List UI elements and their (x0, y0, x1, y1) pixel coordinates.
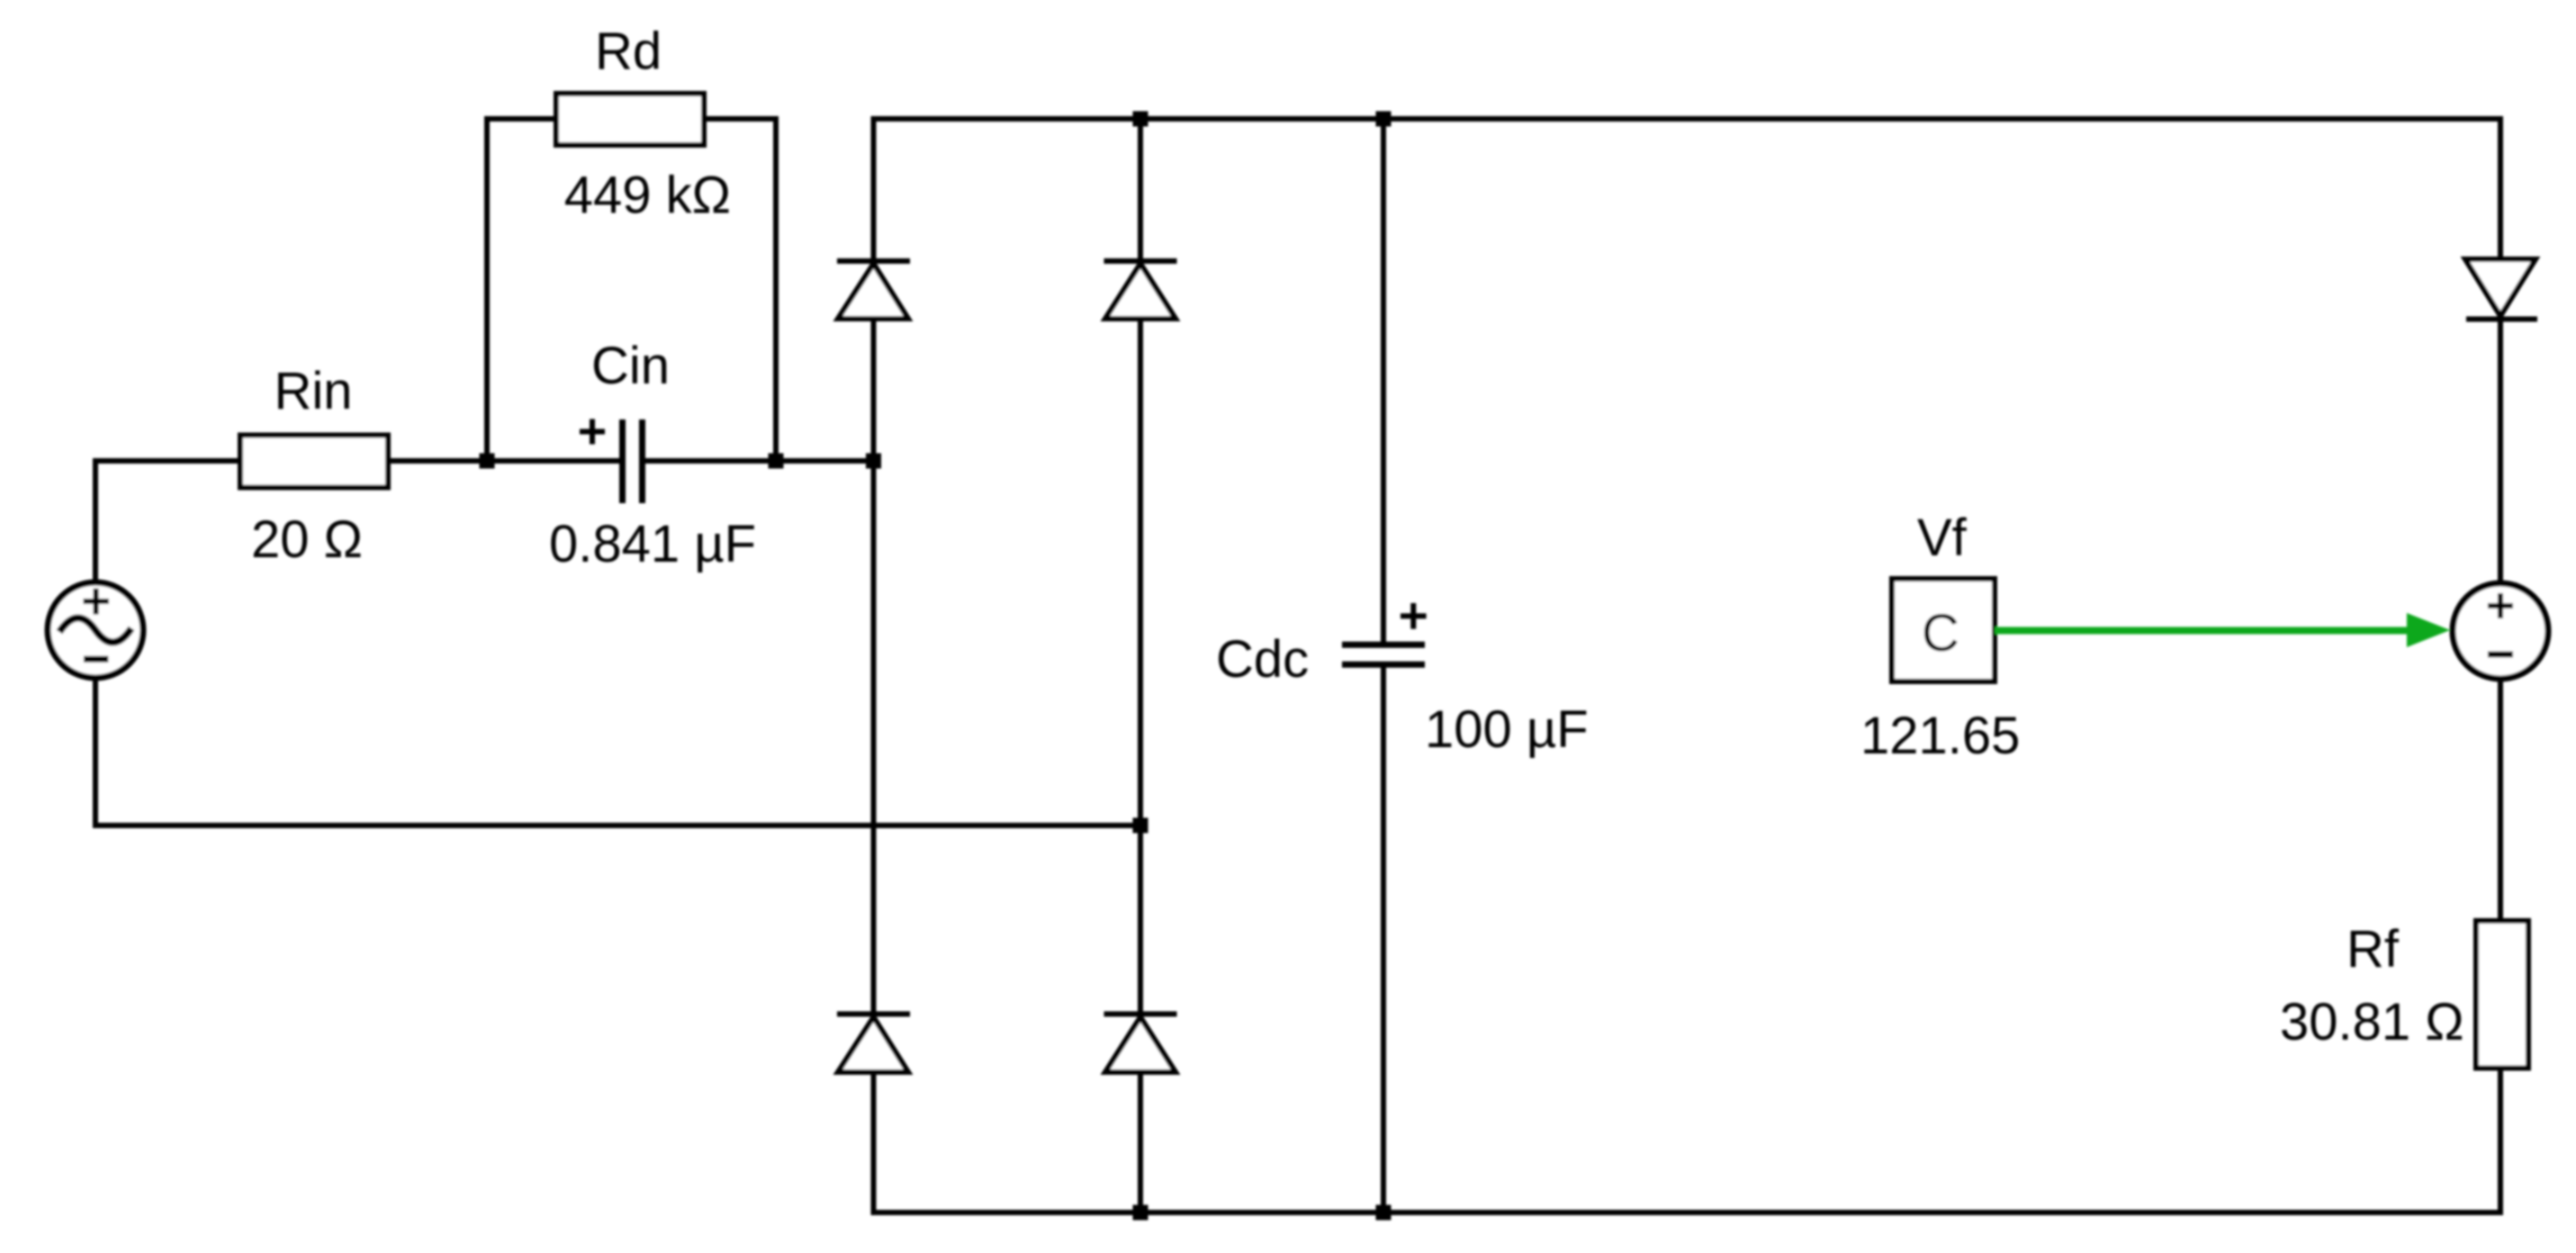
svg-text:0.841 µF: 0.841 µF (549, 515, 756, 573)
svg-text:Rd: Rd (595, 23, 662, 81)
svg-text:20 Ω: 20 Ω (251, 510, 363, 569)
svg-text:Rf: Rf (2346, 920, 2400, 978)
svg-text:Rin: Rin (275, 362, 353, 420)
svg-text:100 µF: 100 µF (1425, 700, 1589, 759)
svg-text:C: C (1922, 604, 1959, 663)
svg-text:Vf: Vf (1917, 509, 1968, 567)
svg-text:Cdc: Cdc (1216, 630, 1309, 689)
svg-text:30.81 Ω: 30.81 Ω (2280, 993, 2464, 1051)
svg-text:449 kΩ: 449 kΩ (564, 167, 731, 225)
svg-text:Cin: Cin (591, 337, 670, 395)
svg-text:121.65: 121.65 (1860, 707, 2020, 765)
